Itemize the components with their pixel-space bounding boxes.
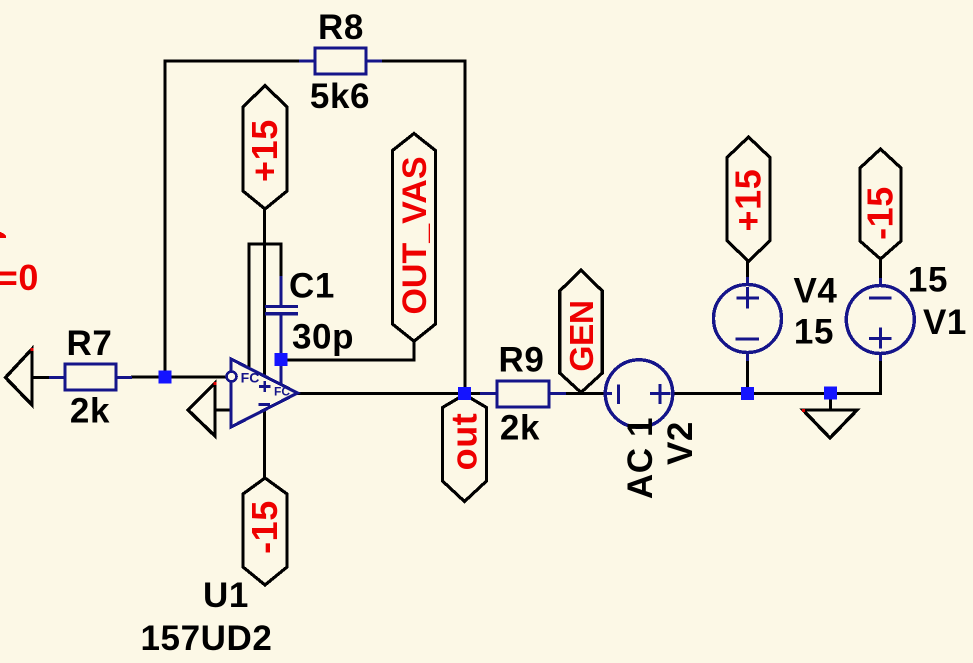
wire op-amp output to R9	[296, 392, 481, 395]
net flag out	[443, 395, 487, 502]
resistor R7	[49, 364, 132, 390]
svg-text:+15: +15	[244, 119, 285, 182]
svg-text:157UD2: 157UD2	[140, 619, 272, 658]
svg-text:-15: -15	[860, 186, 901, 240]
svg-text:+15: +15	[728, 169, 769, 232]
net flag +15 (V4)	[727, 137, 770, 262]
capacitor C1	[265, 276, 298, 385]
junction node R7/feedback	[159, 371, 172, 384]
wire V4 bottom	[746, 352, 749, 394]
voltage source V1	[846, 278, 914, 361]
svg-text:15: 15	[908, 261, 948, 300]
wire op-amp V- pin to -15 flag	[263, 409, 266, 480]
svg-text:C1: C1	[289, 267, 335, 306]
resistor R8	[299, 48, 382, 74]
wire top horizontal left of R8	[164, 60, 301, 63]
svg-text:R9: R9	[499, 341, 545, 380]
svg-text:FC: FC	[274, 385, 290, 399]
svg-text:R8: R8	[318, 8, 364, 47]
wire -15 flag to V1	[879, 258, 882, 287]
wire top horizontal right of R8	[381, 60, 467, 63]
wire top-right vertical (feedback right)	[464, 61, 467, 394]
net flag +15 (op-amp)	[243, 86, 287, 210]
net flag OUT_VAS	[393, 134, 436, 342]
svg-text:2k: 2k	[70, 392, 110, 431]
svg-text:R7: R7	[67, 324, 113, 363]
svg-text:U1: U1	[203, 576, 249, 615]
op-amp U1 157UD2	[227, 359, 298, 427]
wire C1 loop (FC pin up and over)	[249, 244, 281, 369]
red fragment (clipped character)	[0, 232, 6, 238]
resistor R9	[480, 381, 566, 407]
wire +15 flag to V4	[746, 261, 749, 286]
wire OUT_VAS to C1 junction	[281, 340, 414, 360]
voltage source V4	[714, 277, 782, 361]
wire ground to R7	[32, 376, 49, 379]
ground right	[802, 409, 857, 438]
svg-text:OUT_VAS: OUT_VAS	[396, 156, 434, 314]
wire R9 to V2	[566, 392, 607, 395]
svg-text:-15: -15	[244, 500, 285, 554]
svg-text:out: out	[444, 413, 485, 471]
svg-text:V1: V1	[923, 303, 967, 342]
wire +15 flag to op-amp V+ pin	[263, 209, 266, 377]
net flag -15 (op-amp)	[243, 478, 287, 585]
ground at op-amp + input	[188, 382, 217, 436]
svg-text:FC: FC	[241, 370, 260, 386]
wire top-left vertical (feedback left)	[164, 61, 167, 377]
svg-text:2k: 2k	[500, 409, 540, 448]
svg-text:5k6: 5k6	[310, 77, 370, 116]
svg-text:GEN: GEN	[564, 300, 601, 371]
svg-text:=0: =0	[0, 257, 39, 298]
svg-text:V4: V4	[793, 272, 837, 311]
junction node out	[458, 387, 471, 400]
voltage source V2 (AC)	[605, 360, 672, 427]
wire R7 to inverting input	[131, 376, 227, 379]
junction node V4	[741, 387, 754, 400]
junction node C1/OUT_VAS	[275, 353, 288, 366]
wire ground stub right	[829, 393, 832, 410]
svg-text:30p: 30p	[292, 318, 354, 357]
svg-text:AC 1: AC 1	[621, 417, 660, 499]
svg-text:15: 15	[794, 313, 834, 352]
net flag GEN	[560, 270, 603, 393]
junction node ground right	[824, 387, 837, 400]
svg-text:V2: V2	[661, 421, 700, 465]
wire V2 to V1 corner	[672, 353, 881, 394]
ground left	[6, 348, 34, 405]
wire op-amp ground stub	[215, 409, 232, 412]
net flag -15 (V1)	[860, 149, 902, 259]
